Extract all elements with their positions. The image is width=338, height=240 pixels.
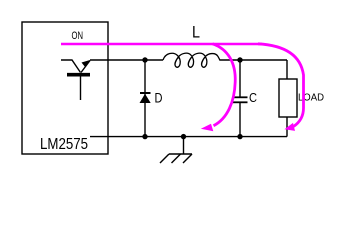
svg-text:L: L: [192, 23, 200, 42]
op-amp U1 LM2575 regulator box: [22, 22, 108, 154]
diode D vertical wire: [144, 60, 146, 137]
svg-text:C: C: [249, 91, 257, 105]
ground symbol: [160, 137, 192, 163]
transistor Q1 internal switch: [61, 60, 90, 100]
node C-top junction: [237, 57, 242, 62]
wire current-flow left arc (magenta): [213, 44, 236, 126]
resistor LOAD box: [279, 79, 297, 117]
svg-text:D: D: [155, 90, 163, 106]
wire down to load: [286, 60, 288, 79]
wire load bottom: [286, 117, 288, 137]
node diode-bottom junction: [142, 134, 147, 139]
wire current-flow main line (magenta): [61, 43, 262, 46]
node C-bottom junction: [237, 134, 242, 139]
capacitor C bottom lead: [239, 103, 241, 137]
node diode-top junction: [142, 57, 147, 62]
diode D symbol: [140, 92, 151, 94]
inductor L coil: [163, 53, 220, 67]
wire inductor to C-top node: [220, 59, 287, 61]
svg-text:LOAD: LOAD: [298, 93, 324, 104]
svg-text:LM2575: LM2575: [40, 136, 88, 153]
wire top rail from switch to inductor: [90, 59, 163, 61]
wire bottom ground rail: [90, 136, 287, 138]
svg-text:ON: ON: [72, 30, 84, 42]
node ground junction: [181, 134, 186, 139]
capacitor C plates: [232, 96, 248, 98]
capacitor C top lead: [239, 60, 241, 97]
wire current-flow right arc (magenta): [258, 44, 304, 127]
